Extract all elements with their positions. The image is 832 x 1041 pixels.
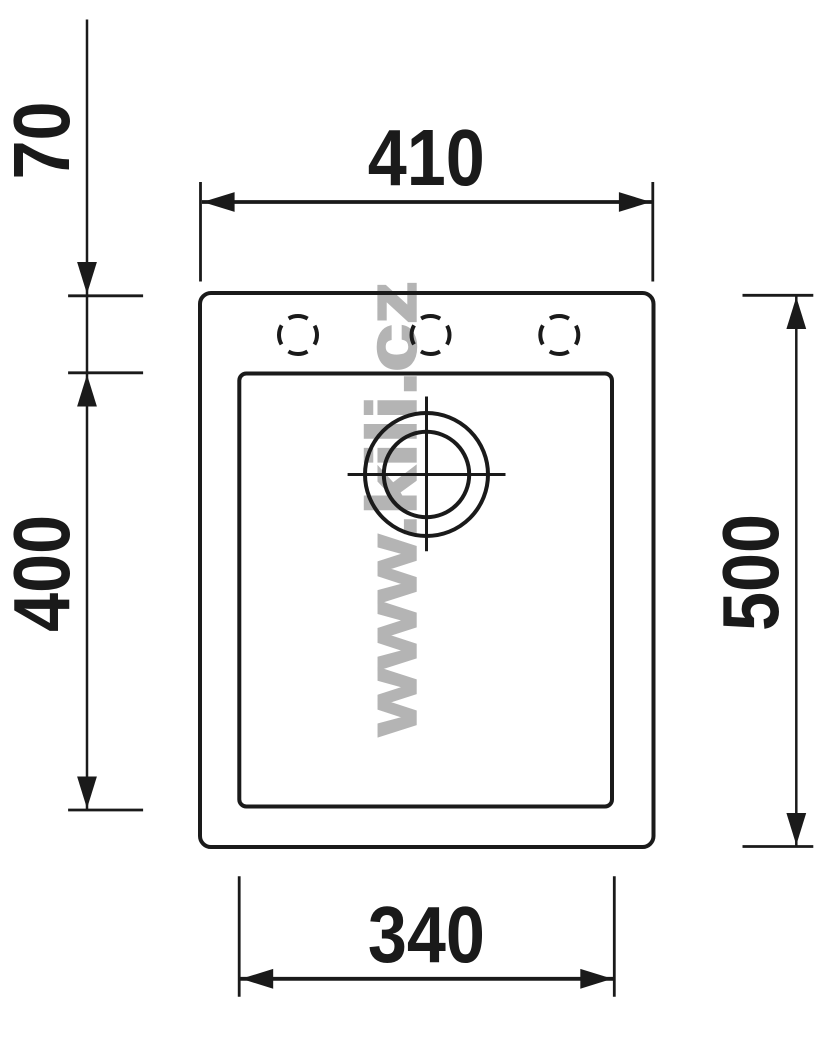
right dim tick top — [743, 294, 814, 297]
drain crosshair vertical — [425, 397, 428, 552]
left dim tick 2 — [68, 371, 143, 374]
bottom dim extension line right — [613, 876, 616, 997]
top dim extension line left — [199, 182, 202, 282]
sink bowl (inner rect) — [239, 374, 612, 807]
arrow 400 down (above tick3) — [77, 777, 97, 809]
right dim line 500 — [795, 295, 798, 846]
drain inner circle — [384, 432, 469, 517]
left dim tick 3 — [68, 809, 143, 812]
left dim line 70 span — [86, 296, 89, 373]
arrow 500 up — [786, 297, 806, 329]
svg-text:400: 400 — [0, 515, 86, 632]
svg-text:500: 500 — [705, 514, 794, 631]
svg-text:70: 70 — [0, 101, 86, 179]
left dim approach line top — [86, 20, 89, 296]
bottom dim extension line left — [238, 876, 241, 997]
dashed tap hole left — [279, 316, 317, 354]
arrow 500 down — [786, 813, 806, 845]
right dim tick bottom — [743, 845, 814, 848]
sink outer rim — [200, 293, 654, 847]
dashed tap hole right — [540, 316, 578, 354]
arrow 340 right — [580, 969, 612, 989]
dashed tap hole middle — [412, 316, 450, 354]
top dim extension line right — [651, 182, 654, 282]
arrow 410 left — [203, 192, 235, 212]
arrow 70 down (above tick1) — [77, 262, 97, 294]
svg-text:340: 340 — [368, 890, 485, 979]
drain outer circle — [365, 413, 488, 536]
svg-text:410: 410 — [368, 113, 485, 202]
arrow 400 up (below tick2) — [77, 375, 97, 407]
top dim line 410 — [202, 200, 652, 204]
arrow 410 right — [619, 192, 651, 212]
left dim tick 1 — [68, 294, 143, 297]
bottom dim line 340 — [241, 977, 614, 981]
svg-text:www.kili.cz: www.kili.cz — [352, 281, 431, 736]
drain crosshair horizontal — [348, 473, 506, 476]
arrow 340 left — [241, 969, 273, 989]
left dim line 400 — [86, 373, 89, 810]
